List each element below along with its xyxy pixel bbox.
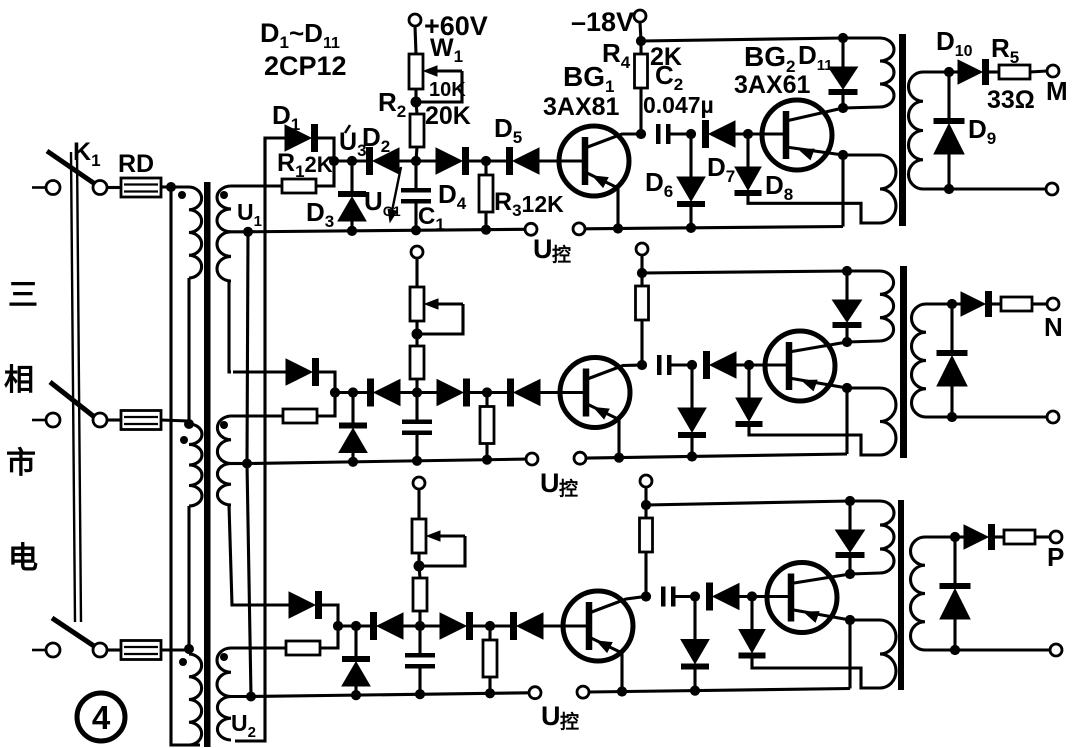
- wire D9 to bottom ch3: [953, 619, 956, 650]
- label U3: [339, 125, 367, 160]
- wire D2 to R2 node ch1: [399, 159, 436, 162]
- label 10K (boxed): [429, 79, 466, 101]
- node R4/C2 ch3: [641, 591, 651, 601]
- svg-text:P: P: [1047, 542, 1064, 572]
- label D1~D11: [260, 18, 340, 52]
- transistor BG1: [559, 126, 641, 196]
- node secondary 1 tap: [243, 227, 253, 237]
- transformer T1 secondary winding U2 lower half: [217, 464, 231, 506]
- node R2/C1 ch3: [415, 621, 425, 631]
- pulse transformer core ch3: [898, 500, 904, 690]
- node R3 ch1: [481, 156, 491, 166]
- diode D11b: [833, 300, 862, 328]
- wire D10 to R5 ch1: [989, 70, 999, 73]
- diode D1c: [289, 591, 322, 619]
- diode D11: [829, 67, 858, 95]
- diode D5: [506, 147, 539, 175]
- negative supply terminal ch3: [640, 475, 652, 487]
- label -18V: [571, 7, 634, 37]
- wire C1 to rail ch1: [414, 204, 417, 231]
- label D8: [765, 170, 793, 204]
- node D3 rail ch2: [348, 457, 358, 467]
- node BG2 collector ch3: [845, 569, 855, 579]
- switch K1 pole A blade: [47, 151, 95, 184]
- label 相 (three-phase mains text): [4, 364, 34, 397]
- feedback winding top lead ch3: [850, 618, 880, 621]
- top rail to pulse transformer ch3: [646, 501, 850, 505]
- wire secondary top to R1 ch2: [231, 414, 283, 417]
- wire R1 to U3 node ch3: [320, 626, 338, 648]
- diode D5c: [510, 612, 543, 640]
- pulse transformer core ch1: [899, 34, 906, 226]
- feedback winding top lead ch1: [843, 153, 880, 156]
- label 三 (three-phase mains text): [8, 279, 38, 312]
- diode D6c: [681, 640, 709, 670]
- phase B input terminal: [46, 413, 60, 427]
- diode D9c: [940, 583, 971, 619]
- diode D6b: [678, 408, 706, 438]
- wire node to D9 ch1: [947, 72, 950, 118]
- label D1: [272, 100, 300, 134]
- svg-text:RD: RD: [118, 150, 154, 178]
- wire D10 to R5 ch2: [992, 302, 1001, 305]
- node pulse transformer top ch1: [838, 33, 848, 43]
- phase C input terminal: [46, 643, 60, 657]
- wire C1 to rail ch2: [415, 435, 418, 461]
- long bus wire (secondary top tie line): [235, 138, 265, 741]
- node D3 rail ch1: [347, 226, 357, 236]
- node D3 top ch1: [347, 156, 357, 166]
- wire D9 to bottom ch2: [950, 386, 953, 417]
- primary bottom lead ch3: [850, 573, 880, 574]
- wire down to D3 ch3: [354, 626, 357, 656]
- pulse transformer primary winding ch2: [880, 271, 894, 341]
- wire D6 to rail ch2: [690, 438, 693, 457]
- fuse RD phase B: [121, 411, 161, 430]
- label BG2: [744, 41, 795, 76]
- node BG2 emitter ch3: [845, 615, 855, 625]
- capacitor C1: [401, 188, 431, 204]
- diode D8b: [736, 398, 763, 427]
- primary bottom lead ch2: [847, 341, 880, 342]
- wire top rail to D11 ch1: [841, 38, 844, 67]
- node D8 top ch3: [747, 591, 757, 601]
- transformer T1 core: [204, 182, 211, 747]
- transistor BG1b: [560, 358, 642, 428]
- wire D3 anode to rail ch2: [351, 453, 354, 462]
- diode D7b: [703, 351, 736, 379]
- label BG1: [563, 61, 614, 96]
- node C2/D6/D7 ch3: [690, 591, 700, 601]
- label 2K: [650, 43, 682, 71]
- svg-text:33Ω: 33Ω: [987, 86, 1035, 114]
- pulse transformer core ch2: [900, 266, 907, 458]
- svg-text:U: U: [540, 468, 560, 498]
- wire switch to fuse phase A: [107, 186, 121, 189]
- svg-text:U: U: [541, 701, 561, 731]
- diode D5b: [507, 379, 540, 407]
- label D6: [645, 167, 673, 201]
- wire D5 to BG1 base ch1: [539, 159, 583, 162]
- transformer T1 secondary winding U1 upper half: [217, 186, 231, 232]
- svg-text:M: M: [1046, 76, 1068, 106]
- phase B input stub: [32, 419, 45, 422]
- transistor BG2c: [767, 563, 850, 633]
- resistor R2c: [413, 578, 427, 611]
- wire C1 to rail ch3: [418, 669, 421, 695]
- node U3 ch2: [330, 387, 340, 397]
- wire node to D10 ch3: [955, 535, 964, 538]
- resistor R2: [410, 114, 424, 147]
- wire node to C1 ch2: [415, 393, 418, 420]
- svg-text:控: 控: [560, 710, 579, 733]
- switch K1 pole C pivot: [93, 643, 107, 657]
- wire switch to fuse phase B: [107, 418, 121, 421]
- wire U1 top to D1/R1 node: [231, 184, 282, 187]
- node -18V ch3: [641, 500, 651, 510]
- label 33ohm: [987, 86, 1035, 114]
- wire node to R3 ch2: [485, 393, 488, 407]
- svg-text:R312K: R312K: [494, 188, 564, 220]
- wire D8 to feedback winding ch2: [749, 427, 880, 455]
- output terminal P+: [1050, 531, 1062, 543]
- potentiometer W1b: [410, 287, 424, 321]
- secondary bottom lead ch2: [926, 415, 1047, 418]
- resistor R4b: [636, 286, 649, 320]
- node R3 ch3: [485, 621, 495, 631]
- wire emitter node to rail ch2: [845, 388, 848, 454]
- capacitor C1c: [405, 653, 435, 669]
- wire D7 to BG2 base ch1: [735, 132, 786, 135]
- label W1: [430, 34, 463, 66]
- node pulse transformer top ch2: [842, 266, 852, 276]
- wire BG1 emitter to rail ch1: [616, 188, 619, 229]
- svg-text:电: 电: [8, 542, 38, 575]
- resistor R5b: [1001, 297, 1032, 311]
- node D6 rail ch2: [687, 451, 697, 461]
- diode D1b: [286, 358, 319, 386]
- capacitor C2c: [661, 587, 676, 607]
- node D8 top ch2: [744, 360, 754, 370]
- node D3 top ch2: [348, 387, 358, 397]
- pulse transformer secondary winding ch1: [908, 72, 923, 189]
- wire down to D3 ch2: [351, 393, 354, 423]
- label Ukong ch3: [541, 701, 579, 733]
- phase A input terminal: [46, 181, 60, 195]
- pulse transformer primary winding ch1: [880, 38, 894, 107]
- svg-text:N: N: [1044, 312, 1063, 342]
- label 3AX81: [543, 93, 620, 121]
- resistor R3: [479, 175, 493, 212]
- wire D1 cathode down to U3 node ch3: [322, 605, 338, 626]
- diode D3c: [342, 656, 370, 686]
- W1 wiper arrow ch2: [425, 299, 463, 309]
- node C1 rail ch2: [412, 456, 422, 466]
- wire node to C1 ch1: [414, 161, 417, 188]
- wire R2 to line ch2: [415, 379, 418, 393]
- transistor BG2b: [765, 331, 847, 401]
- secondary bottom lead ch3: [925, 648, 1050, 651]
- wire secondary2 bottom to channel3 D1 input: [229, 505, 233, 605]
- label C1: [418, 203, 445, 234]
- wire U3 to D2 ch1: [334, 159, 366, 162]
- resistor R3c: [483, 640, 497, 677]
- transformer T1 primary winding 1: [189, 187, 202, 278]
- resistor R1b 2K: [283, 409, 317, 423]
- wire D5 to BG1 base ch3: [543, 624, 587, 627]
- node D3 rail ch3: [351, 690, 361, 700]
- potentiometer W1: [409, 54, 423, 89]
- label U2: [231, 710, 256, 741]
- wire C2 to D7 node ch3: [676, 595, 696, 598]
- diode D1: [285, 124, 318, 152]
- bottom rail left ch2: [247, 459, 526, 463]
- svg-text:2CP12: 2CP12: [264, 51, 347, 81]
- wire R4 to C2 node ch2: [640, 320, 643, 365]
- wire node up to D1 anode: [265, 138, 285, 186]
- switch K1 linkage bar 2: [77, 152, 81, 622]
- label U1: [237, 199, 262, 230]
- node R3 ch2: [482, 387, 492, 397]
- pulse transformer secondary winding ch2: [911, 304, 926, 417]
- wire node to D9 ch2: [950, 304, 953, 350]
- W1 wiper arrow ch3: [427, 531, 465, 541]
- feedback winding top lead ch2: [847, 386, 880, 389]
- wire C2 to D7 node ch1: [671, 132, 692, 135]
- W1 wiper loop ch1: [416, 71, 462, 102]
- wire R1 to U3 node ch2: [317, 393, 335, 417]
- transformer T1 secondary winding U2 upper half: [217, 416, 231, 464]
- resistor R4c: [640, 518, 653, 552]
- label D10: [936, 26, 973, 60]
- wire terminal to W1 ch2: [415, 258, 418, 287]
- node W1 wiper junction ch1: [411, 97, 422, 108]
- label D4: [438, 179, 467, 213]
- wire D1 cathode down to U3 node ch2: [319, 372, 335, 393]
- wire D10 to R5 ch3: [995, 535, 1004, 538]
- node R4/C2 ch2: [637, 360, 647, 370]
- output terminal M+: [1047, 65, 1059, 77]
- label Ukong ch2: [540, 468, 578, 500]
- fuse RD phase C: [121, 641, 161, 660]
- node BG1 emitter rail ch2: [614, 453, 624, 463]
- wire U3 to D2 ch2: [335, 391, 367, 394]
- node D3 top ch3: [351, 621, 361, 631]
- top rail to pulse transformer ch2: [642, 271, 847, 273]
- node D6 rail ch3: [690, 686, 700, 696]
- node R3 rail ch2: [482, 455, 492, 465]
- node U3 ch3: [333, 621, 343, 631]
- node secondary 2 tap: [242, 459, 252, 469]
- wire R2 to line ch3: [418, 611, 421, 626]
- svg-text:R12K: R12K: [277, 149, 333, 181]
- wire R2 to line ch1: [416, 147, 417, 161]
- wire fuse B to node: [161, 420, 189, 421]
- svg-text:控: 控: [552, 243, 571, 266]
- wire D7 to BG2 base ch2: [736, 363, 789, 366]
- node phase A / primary 1 top: [166, 182, 176, 192]
- label C2: [655, 60, 683, 94]
- diode D2: [366, 147, 399, 175]
- capacitor C2: [656, 124, 671, 144]
- wire D8 to feedback winding ch3: [752, 659, 880, 689]
- node secondary top ch3: [950, 532, 960, 542]
- node secondary top ch1: [944, 67, 954, 77]
- node secondary top ch2: [947, 299, 957, 309]
- diode D10: [958, 59, 989, 85]
- node C2/D6/D7 ch2: [687, 360, 697, 370]
- wire primary2 bottom to primary3 top: [187, 506, 190, 654]
- wire D4 to R3 node ch1: [469, 159, 506, 162]
- transistor BG2: [762, 100, 843, 170]
- wire D5 to BG1 base ch2: [540, 391, 584, 394]
- output terminal P-: [1050, 644, 1062, 656]
- wire fuse C to node: [161, 648, 189, 651]
- svg-text:3AX81: 3AX81: [543, 93, 620, 121]
- bottom rail left ch3: [251, 693, 529, 697]
- terminal Ukong right ch1: [573, 223, 585, 235]
- wire node A to primary 1: [171, 185, 189, 188]
- svg-text:4: 4: [92, 699, 111, 736]
- supply terminal ch1 +60V: [409, 14, 421, 26]
- wire D11 to primary bottom ch3: [848, 558, 851, 574]
- wire secondary1 bottom to channel2 D1 input: [229, 281, 231, 372]
- node phase B / primary junction: [184, 419, 194, 429]
- node R2/C1 ch1: [411, 156, 421, 166]
- svg-text:相: 相: [4, 364, 34, 397]
- figure number 4 (circled): [77, 693, 125, 741]
- wire R4 to C2 node ch1: [639, 88, 642, 134]
- wire secondary 1 tap to rail: [231, 230, 248, 233]
- node secondary 3 tap: [246, 692, 256, 702]
- label 0.047u: [643, 92, 714, 118]
- node BG2 emitter ch1: [838, 150, 848, 160]
- wire D3 anode to rail ch1: [350, 221, 353, 231]
- node W1 wiper junction ch2: [412, 329, 423, 340]
- primary top lead ch3: [850, 499, 880, 502]
- node R4/C2 ch1: [636, 129, 646, 139]
- bottom rail right ch3: [589, 689, 850, 693]
- output terminal N-: [1047, 411, 1059, 423]
- label 20K: [425, 102, 471, 130]
- wire node to R2 ch3: [419, 566, 420, 578]
- diode D3: [338, 191, 366, 221]
- node -18V ch1: [636, 36, 646, 46]
- capacitor C1b: [402, 420, 432, 436]
- label D3: [306, 197, 334, 231]
- T1 primary polarity dot 2: [180, 436, 188, 444]
- node BG2 collector ch1: [838, 103, 848, 113]
- node R3 rail ch3: [485, 688, 495, 698]
- svg-text:3AX61: 3AX61: [734, 71, 811, 99]
- transformer T1 secondary winding U1 lower half: [217, 232, 231, 281]
- diode D9b: [937, 350, 968, 386]
- phase C input stub: [32, 649, 45, 652]
- label Ukong ch1: [533, 234, 571, 266]
- svg-text:20K: 20K: [425, 102, 471, 130]
- label R5: [991, 33, 1019, 67]
- potentiometer W1c: [412, 519, 426, 553]
- diode D2b: [367, 379, 400, 407]
- node BG1 emitter rail ch1: [613, 223, 623, 233]
- resistor R1c 2K: [286, 641, 320, 655]
- secondary top lead ch3: [925, 535, 955, 538]
- primary bottom lead ch1: [843, 107, 880, 108]
- svg-text:–18V: –18V: [571, 7, 634, 37]
- output terminal N+: [1047, 298, 1059, 310]
- wire D9 to bottom ch1: [947, 154, 950, 189]
- wire node to D6 ch2: [690, 365, 693, 408]
- wire switch to fuse phase C: [107, 648, 121, 651]
- secondary top lead ch1: [923, 70, 949, 73]
- primary top lead ch1: [843, 36, 880, 39]
- wire D4 to R3 node ch3: [473, 624, 510, 627]
- switch K1 pole B blade: [50, 382, 97, 419]
- node C1 rail ch1: [411, 225, 421, 235]
- diode D3b: [339, 423, 367, 453]
- negative supply terminal ch1 -18V: [634, 10, 646, 22]
- wire R3 to rail ch1: [484, 212, 487, 230]
- pulse transformer feedback winding ch3: [880, 620, 896, 688]
- diode D4: [436, 147, 469, 175]
- wire D4 to R3 node ch2: [470, 391, 507, 394]
- wire node to R4 ch1: [639, 41, 642, 54]
- node C1 rail ch3: [415, 689, 425, 699]
- wire R3 to rail ch2: [485, 444, 488, 460]
- resistor R3b: [480, 407, 494, 444]
- diode D10b: [961, 291, 992, 317]
- wire top rail to D11 ch2: [845, 271, 848, 300]
- node secondary bottom ch1: [944, 184, 954, 194]
- wire node to D10 ch1: [949, 70, 958, 73]
- resistor R5: [999, 65, 1030, 79]
- wire secondary top to R1 ch3: [231, 646, 286, 649]
- T1 secondary polarity dot 3: [220, 653, 228, 661]
- terminal Ukong right ch2: [574, 452, 586, 464]
- svg-text:三: 三: [8, 279, 38, 312]
- wire R5 to output ch2: [1032, 302, 1047, 305]
- supply terminal ch3: [413, 477, 425, 489]
- node BG2 emitter ch2: [842, 383, 852, 393]
- transformer T1 secondary winding U3 lower half: [217, 697, 231, 741]
- node U3 ch1: [329, 156, 339, 166]
- wire D11 to primary bottom ch1: [841, 95, 844, 108]
- long wire phase A to primary 3 bottom: [171, 187, 200, 745]
- terminal Ukong left ch3: [529, 687, 541, 699]
- wire terminal to node ch1: [640, 22, 641, 41]
- label RD: [118, 150, 154, 178]
- wire D6 to rail ch3: [693, 670, 696, 691]
- wire secondary tap feed to D1 anode ch3: [233, 603, 289, 606]
- wire node to R4 ch3: [644, 505, 647, 518]
- transformer T1 secondary winding U3 upper half: [217, 648, 231, 697]
- top rail to pulse transformer ch1: [641, 38, 843, 41]
- transformer T1 primary winding 3: [189, 654, 202, 745]
- wire D7 to BG2 base ch3: [739, 595, 791, 598]
- secondary bottom lead ch1: [923, 187, 1046, 190]
- W1 wiper loop ch2: [417, 304, 463, 334]
- wire node to D10 ch2: [952, 302, 961, 305]
- T1 secondary polarity dot 2: [220, 421, 228, 429]
- label D2: [362, 122, 390, 156]
- label R2: [378, 87, 406, 121]
- label P: [1047, 542, 1064, 572]
- common tap bus wire: [247, 232, 251, 697]
- phase A input stub: [32, 186, 45, 189]
- wire top rail to D11 ch3: [848, 501, 851, 530]
- wire node to R4 ch2: [640, 273, 643, 286]
- node D8 top ch1: [743, 129, 753, 139]
